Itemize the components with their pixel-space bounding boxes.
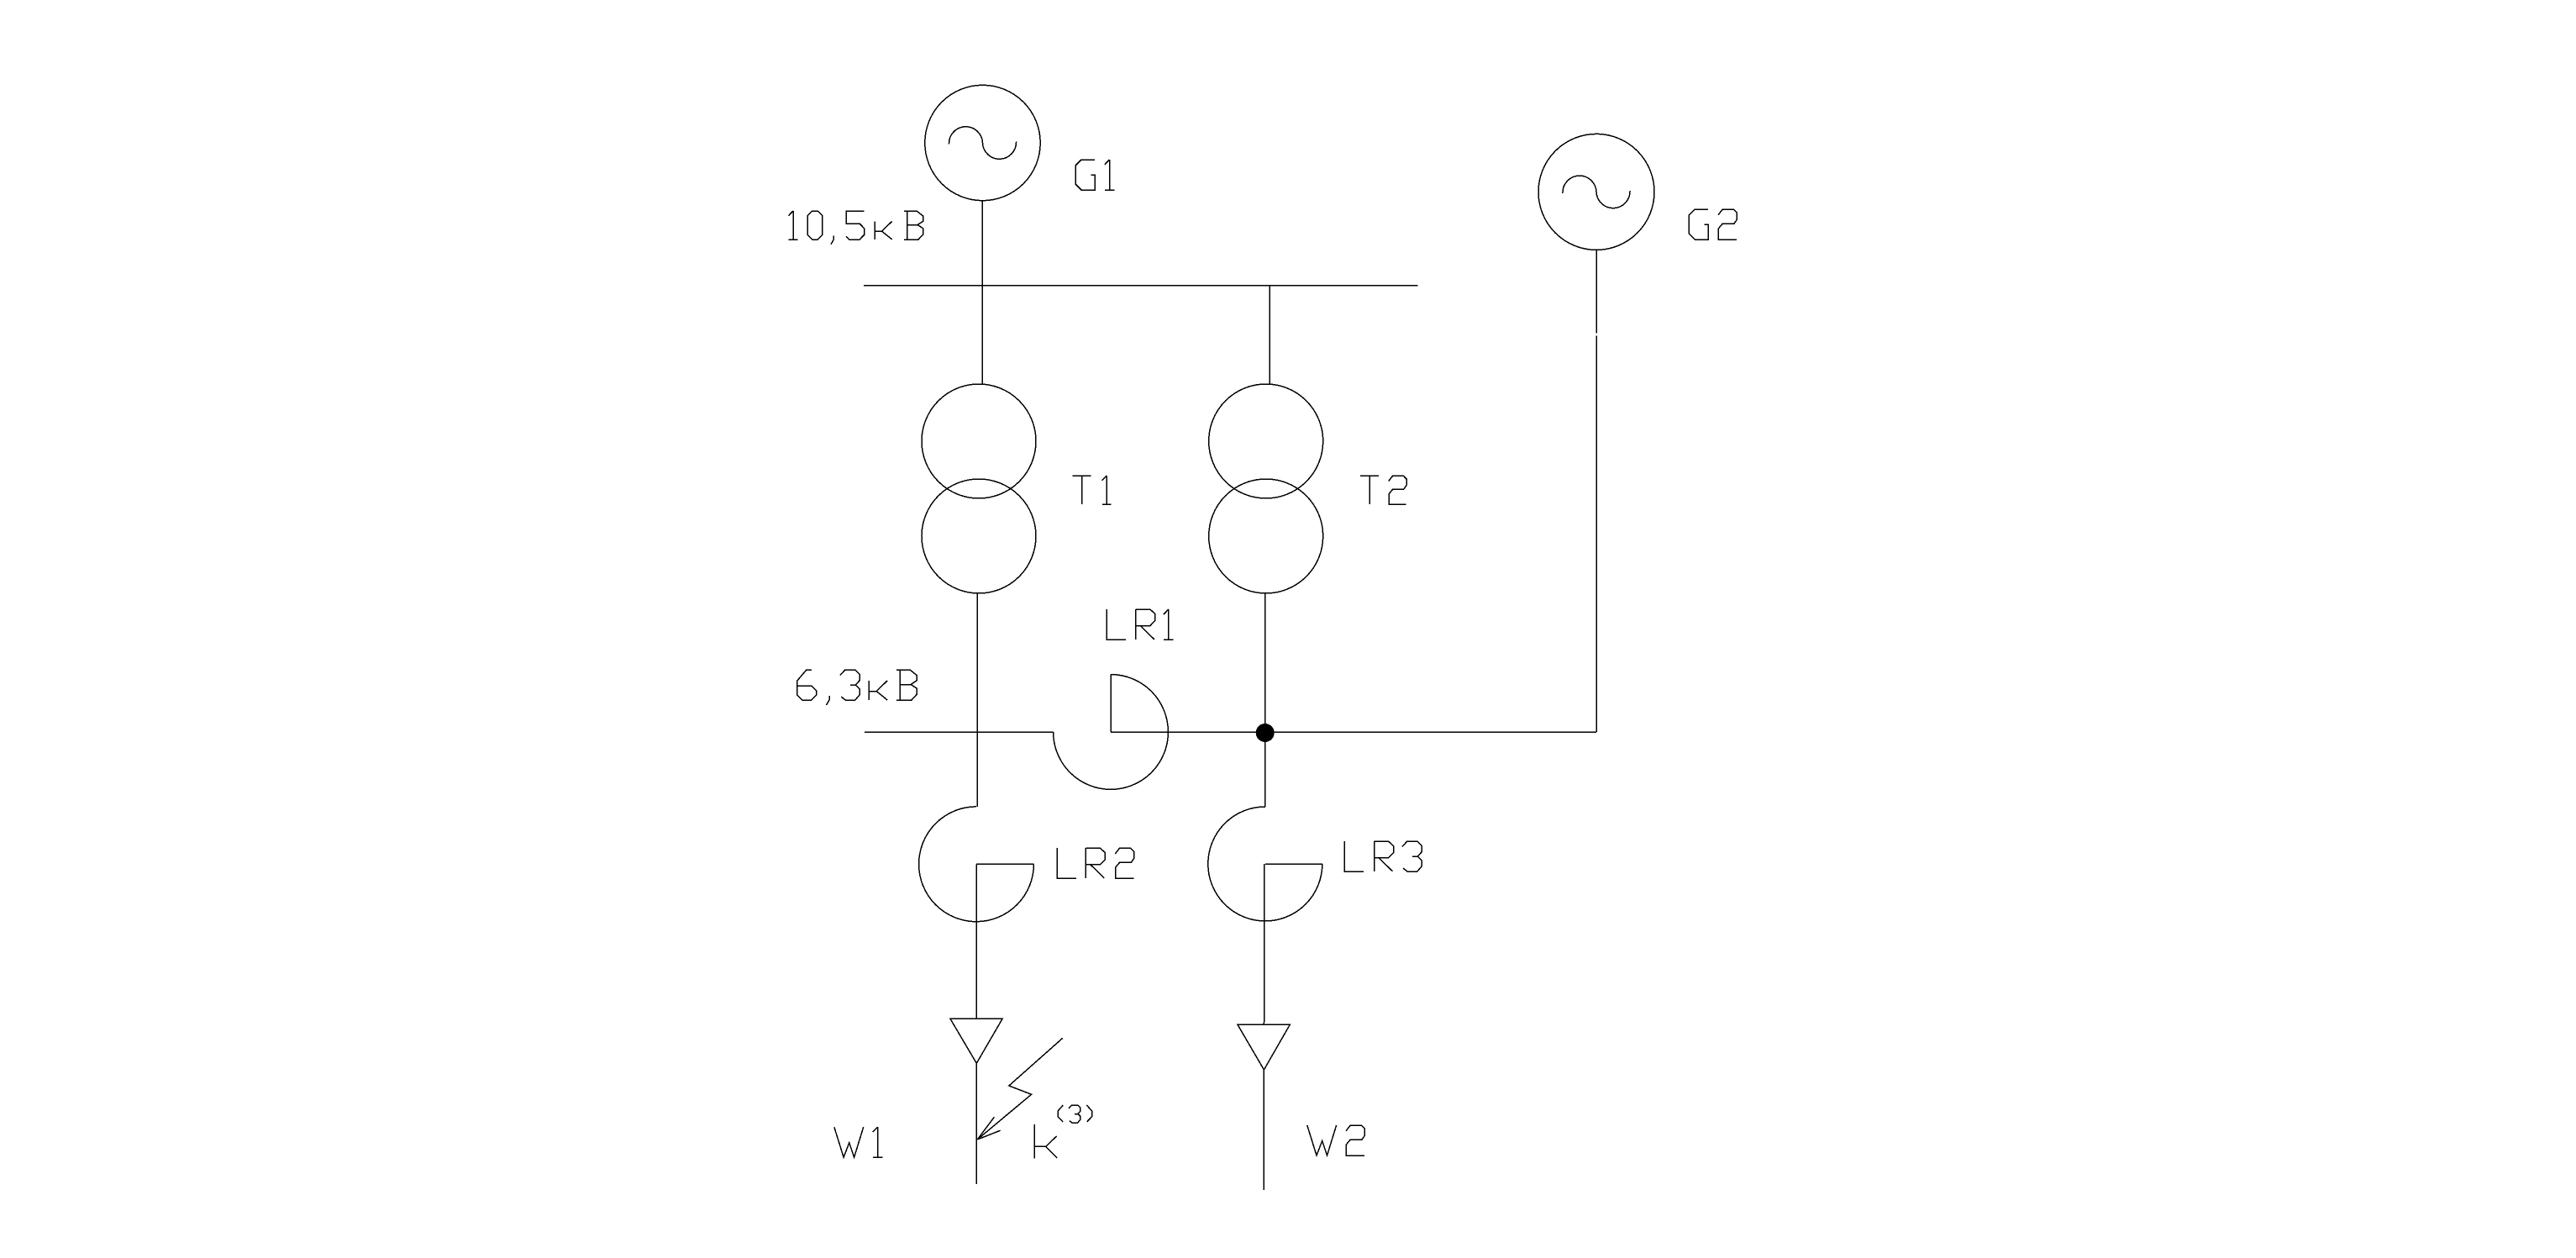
reactor LR1: [1054, 675, 1169, 790]
label T1: [1073, 476, 1112, 504]
label k: [1034, 1124, 1057, 1159]
transformer T1: [922, 384, 1036, 593]
wire W1 line: [975, 1063, 977, 1184]
wire W2 line: [1263, 1070, 1264, 1190]
label G2: [1689, 209, 1737, 239]
wire bus to T2: [1269, 286, 1270, 384]
fault arrow k(3) lightning bolt: [977, 1039, 1062, 1140]
wire LR3 to W2: [1264, 864, 1266, 1024]
reactor LR2: [919, 807, 1034, 922]
label G1: [1075, 160, 1114, 190]
label W2: [1307, 1125, 1365, 1155]
label W1: [834, 1127, 883, 1157]
wire T1 to LR2: [976, 593, 978, 807]
line W1 arrow: [950, 1019, 1002, 1063]
label 10,5kV: [788, 211, 923, 245]
label LR3: [1344, 841, 1422, 871]
wire T2 to node: [1264, 593, 1266, 807]
bus 10,5kV: [864, 285, 1417, 287]
label 6,3kV: [797, 670, 917, 705]
label (3): [1058, 1105, 1063, 1122]
line W2 arrow: [1238, 1024, 1291, 1070]
reactor LR3: [1208, 807, 1322, 921]
wire G2 to node: [1596, 250, 1597, 732]
node junction dot: [1256, 724, 1275, 742]
wire LR1 to G2 drop: [1111, 731, 1596, 733]
label T2: [1360, 476, 1406, 504]
wire G1 to T1 drop: [981, 201, 983, 385]
transformer T2: [1209, 384, 1323, 593]
bus 6,3kV: [865, 731, 1054, 733]
label LR2: [1057, 848, 1133, 878]
wire LR2 to W1: [975, 864, 977, 1019]
generator G1: [925, 85, 1040, 200]
label LR1: [1107, 609, 1173, 640]
generator G2: [1538, 134, 1654, 250]
